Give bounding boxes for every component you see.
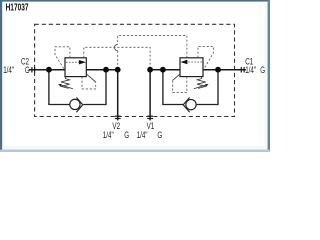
check valve CV2 (70, 99, 80, 109)
RV1 pilot line (crossover from V2 side) (118, 35, 187, 57)
svg-text:G: G (260, 65, 265, 76)
RV2 spring (61, 77, 70, 89)
RV2 flow arrow (66, 61, 80, 63)
RV2 drain line (82, 77, 96, 89)
wire C1 port line (203, 69, 246, 71)
svg-text:1/4": 1/4" (137, 130, 148, 141)
wire left bypass loop (49, 70, 70, 105)
label V2 1/4" G (103, 130, 129, 141)
wire V2 port line (117, 70, 119, 121)
junction node B (left loop return) (103, 67, 109, 73)
relief valve RV2 body (65, 58, 86, 77)
junction node D (C1 branch) (215, 67, 221, 73)
RV1 pilot line (self, C1 side) (198, 46, 213, 67)
svg-text:1/4": 1/4" (103, 130, 114, 141)
svg-text:V1: V1 (147, 121, 155, 132)
wire mid-left segment (86, 69, 117, 71)
RV2 adjustment arrow (60, 85, 73, 89)
wire C2 port line (29, 69, 65, 71)
svg-text:G: G (157, 130, 162, 141)
junction node V2 (115, 67, 121, 73)
port C1 ticks (241, 67, 244, 72)
RV1 flow arrow (187, 61, 202, 63)
svg-text:1/4": 1/4" (3, 65, 14, 76)
valve assembly dashed enclosure (35, 24, 235, 116)
port C2 ticks (32, 67, 35, 72)
wire V1 port line (149, 70, 151, 121)
svg-text:H17037: H17037 (6, 1, 29, 13)
RV1 adjustment arrow (194, 85, 207, 89)
label V1 1/4" G (137, 130, 163, 141)
svg-text:G: G (124, 130, 129, 141)
svg-text:G: G (25, 65, 30, 76)
wire mid-right segment (150, 69, 180, 71)
port V2 ticks (115, 116, 121, 118)
port V1 ticks (147, 116, 153, 118)
svg-text:1/4": 1/4" (245, 65, 256, 76)
junction node C (right loop) (160, 67, 166, 73)
RV2 pilot line (self, C2 side) (55, 47, 70, 69)
RV1 spring (197, 77, 206, 89)
junction node V1 (147, 67, 153, 73)
label C1 1/4" G (245, 65, 265, 76)
label C2 1/4" G (3, 65, 30, 76)
wire right bypass loop (163, 70, 184, 105)
RV2 pilot line (crossover from V1 side) (84, 47, 150, 67)
junction node A (C2 branch) (46, 67, 52, 73)
RV1 drain line (173, 77, 187, 93)
check valve CV1 (186, 99, 196, 109)
relief valve RV1 body (180, 58, 203, 77)
